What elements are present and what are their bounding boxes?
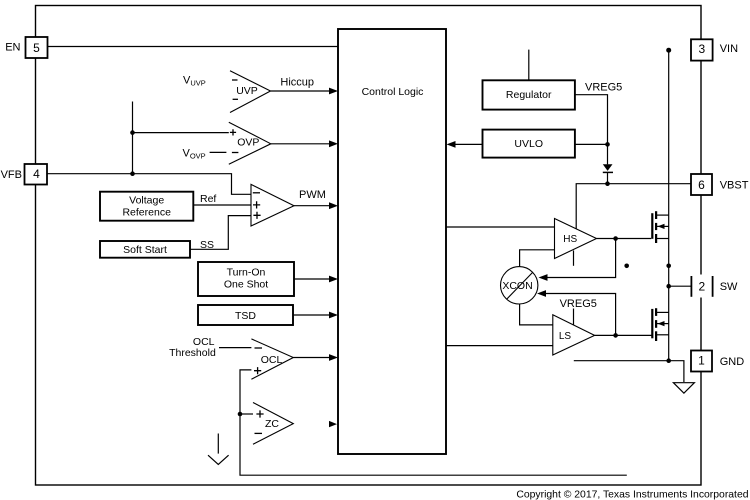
svg-text:Regulator: Regulator xyxy=(506,89,552,101)
svg-text:UVLO: UVLO xyxy=(514,138,543,150)
svg-text:One Shot: One Shot xyxy=(224,279,268,291)
svg-text:3: 3 xyxy=(698,42,705,56)
svg-text:LS: LS xyxy=(559,331,572,342)
svg-text:PWM: PWM xyxy=(299,189,326,201)
svg-text:OVP: OVP xyxy=(237,136,259,148)
svg-text:Control Logic: Control Logic xyxy=(362,86,424,98)
svg-text:EN: EN xyxy=(5,42,20,54)
svg-text:VREG5: VREG5 xyxy=(560,298,597,310)
svg-text:VFB: VFB xyxy=(1,169,22,181)
svg-text:4: 4 xyxy=(33,167,40,181)
svg-text:5: 5 xyxy=(33,41,40,55)
svg-text:ZC: ZC xyxy=(265,418,279,430)
svg-text:Soft Start: Soft Start xyxy=(123,244,167,256)
svg-text:OCL: OCL xyxy=(261,354,283,366)
svg-text:Turn-On: Turn-On xyxy=(227,267,266,279)
svg-text:VREG5: VREG5 xyxy=(585,82,622,94)
svg-text:Threshold: Threshold xyxy=(169,347,216,359)
svg-text:SW: SW xyxy=(720,281,738,293)
svg-text:XCON: XCON xyxy=(502,280,532,292)
svg-text:VIN: VIN xyxy=(720,43,738,55)
svg-text:1: 1 xyxy=(698,354,705,368)
svg-text:2: 2 xyxy=(698,279,705,293)
svg-text:UVP: UVP xyxy=(236,85,258,97)
svg-text:GND: GND xyxy=(720,356,745,368)
svg-text:Hiccup: Hiccup xyxy=(280,76,314,88)
svg-text:Voltage: Voltage xyxy=(129,195,164,207)
svg-text:Reference: Reference xyxy=(122,207,171,219)
svg-text:TSD: TSD xyxy=(235,310,256,322)
svg-text:6: 6 xyxy=(698,178,705,192)
svg-text:VBST: VBST xyxy=(720,180,749,192)
svg-text:SS: SS xyxy=(200,239,214,251)
svg-text:Ref: Ref xyxy=(200,193,216,205)
svg-text:HS: HS xyxy=(563,234,577,245)
svg-text:Copyright © 2017, Texas Instru: Copyright © 2017, Texas Instruments Inco… xyxy=(516,489,748,500)
